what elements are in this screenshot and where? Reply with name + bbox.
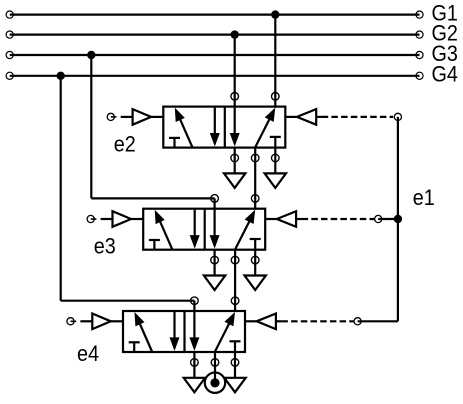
valve e4 left pilot stub [111,320,123,322]
valve e4 left pilot connection circle [67,318,76,325]
junction dot G2 [231,30,239,38]
label G2 [432,22,458,46]
valve e2 bottom right port circle [272,154,280,162]
label G3 [432,42,458,66]
valve e4 bottom right exhaust line [234,352,236,378]
valve e4 top right port circle [231,297,239,305]
valve e4 bottom right port circle [231,359,239,367]
valve e2 bottom right exhaust triangle [265,173,286,188]
valve e2 right pilot triangle [297,109,316,125]
connection circle e1/e4 pilot [354,318,361,325]
valve e3 right diagonal arrow [235,210,255,250]
valve e2 bottom left port circle [231,154,239,162]
valve e2 position divider [224,107,226,148]
terminal circle G3 left [6,51,13,58]
valve e2 left diagonal arrow [175,108,193,148]
bus line G2 [10,33,420,35]
valve e3 bottom left exhaust line [214,250,216,276]
svg-text:e1: e1 [413,186,435,210]
valve e3 left diagonal arrow [155,210,173,250]
valve e4 left down arrow [170,312,180,351]
wire e1 to e3 pilot circle [378,218,398,220]
label e3 [94,235,116,259]
bus line G1 [10,14,420,16]
valve e3 bottom right exhaust line [254,250,256,276]
wire e1 vertical [397,117,399,321]
node e1 top connection circle [394,113,401,120]
valve e4 bottom right exhaust triangle [224,378,245,393]
valve e3 right pilot stub [265,218,277,220]
bus line G4 [10,75,420,77]
valve e4 left pilot triangle [92,314,111,330]
compressed air source dot [210,378,219,387]
dashed pilot line e4 [276,320,354,322]
valve e4 right down arrow [189,312,199,351]
wire e2 supply port to e3 top right port [254,148,256,210]
valve e4 left pilot line [80,320,92,322]
wire e4 supply port to source [214,352,216,383]
valve e2 top left port circle [231,93,239,101]
wire e3 supply port to e4 top right port [234,250,236,312]
bus line G3 [10,54,420,56]
valve e2 right pilot stub [285,116,297,118]
valve e4 top left port circle [191,297,199,305]
label G4 [432,63,459,87]
terminal circle G2 right [416,31,423,38]
terminal circle G4 right [416,72,423,79]
valve e4 left diagonal arrow [135,312,153,352]
valve e4 right blocked port T [230,341,241,352]
valve e2 left pilot connection circle [107,113,116,120]
valve e4 right pilot triangle [257,314,276,330]
valve e3 position divider [204,209,206,250]
valve e2 left blocked port T [169,138,180,148]
terminal circle G1 left [6,11,13,18]
label e2 [114,133,136,157]
valve e4 body [123,311,245,352]
wire G3 vertical segment [90,55,92,198]
valve e3 right blocked port T [250,239,261,250]
terminal circle G1 right [416,11,423,18]
valve e3 right down arrow [210,210,220,249]
valve e3 top left port circle [211,195,219,203]
junction dot G1 [271,10,279,18]
valve e4 bottom left port circle [191,359,199,367]
valve e2 right down arrow [230,108,240,147]
terminal circle G4 left [6,72,13,79]
valve e4 right diagonal arrow [215,312,235,352]
valve e3 bottom right exhaust triangle [245,276,266,291]
junction dot e1 [394,215,402,223]
valve e3 bottom left exhaust triangle [204,276,225,291]
valve e3 body [143,209,265,250]
valve e3 left pilot connection circle [87,215,96,222]
valve e2 body [163,107,285,148]
wire G4 vertical segment [60,76,62,301]
valve e4 bottom middle port circle [211,359,219,367]
valve e2 bottom right exhaust line [274,148,276,174]
wire G3 horizontal segment [91,197,214,199]
wire G2 to e2 port 4 [234,35,236,108]
valve e3 left pilot stub [131,218,143,220]
valve e4 bottom left exhaust triangle [184,378,205,393]
valve e2 left down arrow [210,108,220,147]
connection circle e1/e3 pilot [375,215,382,222]
valve e3 bottom right port circle [251,256,259,264]
terminal circle G3 right [416,51,423,58]
valve e3 left down arrow [190,210,200,249]
dashed pilot line e2 [316,116,393,118]
wire G1 to e2 port 2 [274,15,276,108]
valve e3 bottom middle port circle [231,256,239,264]
wire G4 horizontal segment [61,300,195,302]
valve e3 left blocked port T [149,240,160,250]
valve e3 left pilot triangle [113,211,132,227]
valve e2 bottom left exhaust triangle [224,173,245,188]
valve e2 left pilot triangle [133,109,152,125]
valve e3 right pilot triangle [277,211,296,227]
valve e3 left pilot line [101,218,113,220]
compressed air source circle [205,373,225,393]
valve e3 top right port circle [251,195,259,203]
dashed pilot line e3 [296,218,374,220]
valve e4 right pilot stub [245,320,257,322]
terminal circle G2 left [6,31,13,38]
label e1 [413,186,435,210]
valve e2 left pilot stub [151,116,163,118]
wire into e3 top left port [214,198,216,209]
junction dot G3 [87,51,95,59]
valve e2 bottom middle port circle [251,154,259,162]
valve e2 top right port circle [272,93,280,101]
valve e2 right blocked port T [270,137,281,148]
valve e2 left pilot line [121,116,133,118]
valve e4 left blocked port T [129,342,140,352]
svg-text:e3: e3 [94,235,116,259]
valve e4 position divider [183,311,185,352]
svg-text:G4: G4 [432,63,459,87]
svg-text:e2: e2 [114,133,136,157]
label G1 [432,2,458,26]
valve e2 bottom left exhaust line [234,148,236,174]
valve e2 right diagonal arrow [255,108,275,148]
wire e1 horizontal to e4 pilot [358,320,398,322]
valve e4 bottom left exhaust line [193,352,195,378]
junction dot G4 [57,72,65,80]
wire into e4 top left port [193,301,195,312]
valve e3 bottom left port circle [211,256,219,264]
label e4 [77,342,99,366]
svg-text:e4: e4 [77,342,99,366]
